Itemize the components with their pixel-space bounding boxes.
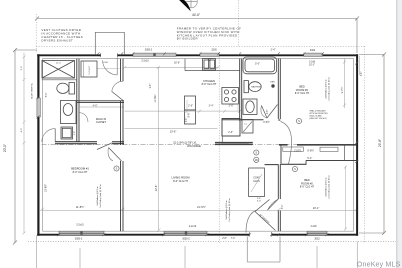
svg-text:3236: 3236 <box>211 48 217 51</box>
toilet 2 <box>244 81 261 93</box>
bed2 door <box>268 199 279 210</box>
bedroom3 door arc <box>281 122 292 165</box>
svg-text:DRYERS EXHAUST: DRYERS EXHAUST <box>41 39 73 43</box>
note text top-right <box>177 27 242 41</box>
svg-text:11'-8½": 11'-8½" <box>76 205 85 209</box>
svg-text:20'-0": 20'-0" <box>3 144 7 152</box>
svg-text:29'-8": 29'-8" <box>378 139 382 147</box>
svg-text:(2) 1-3/4"x11-7/8" LVL: (2) 1-3/4"x11-7/8" LVL <box>173 142 197 145</box>
kitchen counter <box>184 59 186 71</box>
porch <box>247 237 280 263</box>
svg-text:Cat Ceiling Joist @ 16"oc: Cat Ceiling Joist @ 16"oc <box>328 77 331 101</box>
bottom extension lines <box>36 235 38 268</box>
WIC door leaf <box>97 143 112 150</box>
laundry door dim line <box>97 68 120 70</box>
svg-text:12'-6": 12'-6" <box>154 185 158 192</box>
top dimension line 44'-6" <box>35 17 359 54</box>
svg-text:8'-0" CLG HT: 8'-0" CLG HT <box>295 92 310 95</box>
svg-text:CLOSET: CLOSET <box>96 121 106 124</box>
window top 3236 <box>200 48 219 56</box>
svg-text:2'-6": 2'-6" <box>188 105 193 108</box>
svg-text:2-2x10: 2-2x10 <box>141 59 149 62</box>
toilet 1 <box>57 83 75 95</box>
svg-text:8'-8½": 8'-8½" <box>307 149 314 153</box>
svg-text:3050-2: 3050-2 <box>75 238 83 241</box>
door bedroom1 <box>109 148 122 162</box>
laundry door leaf <box>116 58 118 75</box>
laundry rear stoop <box>95 32 124 54</box>
closet sliding doors <box>283 147 304 151</box>
note text top-left <box>41 28 83 43</box>
svg-text:44'-6": 44'-6" <box>192 13 200 17</box>
svg-text:2'-6": 2'-6" <box>257 198 262 200</box>
window bottom 3050-2 b <box>164 225 207 240</box>
svg-text:2x8 Rafters @ 16"oc: 2x8 Rafters @ 16"oc <box>325 79 328 98</box>
svg-text:3052: 3052 <box>314 238 320 241</box>
closet south wall <box>306 160 356 162</box>
svg-text:8'-0" CLG HT: 8'-0" CLG HT <box>173 180 188 183</box>
entry door leaves <box>255 212 276 231</box>
misc small dims <box>150 72 363 240</box>
wall V4 kitchen/bath2 <box>239 59 241 121</box>
window bottom 3050-2 a <box>59 224 104 241</box>
hall south connector wall <box>265 164 279 166</box>
svg-text:3'-6": 3'-6" <box>186 118 188 123</box>
svg-text:Cat Ceiling Joist @ 16"oc: Cat Ceiling Joist @ 16"oc <box>99 184 102 208</box>
kitchen dim line <box>125 110 240 112</box>
svg-text:2x8 Rafters @ 16"oc: 2x8 Rafters @ 16"oc <box>225 200 228 219</box>
dotted line bottom <box>28 240 396 242</box>
wall H2 bedroom1 north <box>55 141 97 143</box>
inner left dimension line <box>23 53 26 235</box>
svg-text:5'-0": 5'-0" <box>46 93 48 98</box>
wall V6 bed2 west <box>278 164 280 231</box>
svg-text:16'-6": 16'-6" <box>174 62 180 65</box>
exterior wall left <box>37 54 39 235</box>
exterior wall top <box>37 54 358 56</box>
svg-text:LIVING ROOM: LIVING ROOM <box>172 176 191 180</box>
construction dashed vertical center <box>218 52 220 243</box>
kitchen island <box>185 96 196 124</box>
svg-text:5'-0": 5'-0" <box>255 63 260 66</box>
svg-text:9'-6": 9'-6" <box>187 112 190 117</box>
vanity 2 <box>243 99 257 114</box>
construction dashed vertical top-left <box>35 14 37 52</box>
svg-text:BY BUILDER: BY BUILDER <box>177 37 198 41</box>
wall H3 south of bath2 <box>222 119 264 121</box>
right dimension line 29'-8" <box>359 53 386 236</box>
svg-text:(SEE DET 2/SCH-2): (SEE DET 2/SCH-2) <box>310 118 327 120</box>
svg-text:3'-0": 3'-0" <box>257 201 262 203</box>
svg-text:12'-0": 12'-0" <box>56 63 61 65</box>
svg-text:5'-0": 5'-0" <box>21 66 23 71</box>
dim 4'-6" <box>79 106 124 108</box>
page scan edge right <box>397 0 402 268</box>
svg-text:BATHRM: BATHRM <box>251 86 260 89</box>
svg-text:SLDR TEMP GL: SLDR TEMP GL <box>32 82 34 99</box>
window top 3050-2 <box>133 48 176 56</box>
svg-text:CLOS: CLOS <box>294 150 301 153</box>
svg-text:10'-1": 10'-1" <box>313 206 320 210</box>
svg-text:2x8 Rafters @ 16"oc: 2x8 Rafters @ 16"oc <box>325 177 328 196</box>
svg-text:3'-6": 3'-6" <box>361 72 363 77</box>
svg-text:10'-8½": 10'-8½" <box>43 184 47 192</box>
smoke detectors <box>114 118 302 171</box>
svg-text:OneKey MLS: OneKey MLS <box>357 261 401 268</box>
wall V1 laundry/bath east <box>76 59 78 142</box>
bath1 to WIC door arc <box>79 113 88 123</box>
wall junction ticks <box>37 52 359 236</box>
svg-text:2'-6": 2'-6" <box>228 131 233 134</box>
svg-text:3'-6½": 3'-6½" <box>263 120 270 124</box>
svg-text:BEDROOM #1: BEDROOM #1 <box>71 167 89 171</box>
bedroom2 dim line <box>345 166 347 230</box>
svg-text:21'-6½": 21'-6½" <box>197 205 206 209</box>
svg-text:Cat Ceiling Joist @ 16"oc: Cat Ceiling Joist @ 16"oc <box>228 198 231 222</box>
svg-text:2X10 RIDGE: 2X10 RIDGE <box>187 145 201 148</box>
wall V2 <box>121 59 124 232</box>
svg-text:Cat Ceiling Joist @ 16"oc: Cat Ceiling Joist @ 16"oc <box>328 175 331 199</box>
interior face of exterior walls <box>43 59 354 232</box>
svg-text:2'-8": 2'-8" <box>267 110 269 115</box>
entry opening in bottom wall <box>250 232 272 236</box>
svg-text:S: S <box>294 167 296 171</box>
svg-text:10'-1": 10'-1" <box>309 64 315 67</box>
interior bottom dimension line <box>40 208 359 211</box>
attic access note <box>310 110 329 121</box>
svg-text:FAN: FAN <box>271 81 275 84</box>
svg-text:2x8 Rafters @ 16"oc: 2x8 Rafters @ 16"oc <box>96 186 99 205</box>
svg-text:5'-6"x2'-0": 5'-6"x2'-0" <box>89 65 91 74</box>
kitchen sink <box>203 59 216 71</box>
svg-text:8'-0" CLG HT: 8'-0" CLG HT <box>202 83 217 86</box>
svg-text:3'-0": 3'-0" <box>282 205 284 210</box>
svg-text:8'-0" CLG HT: 8'-0" CLG HT <box>300 186 315 189</box>
linen closet hall <box>81 61 97 77</box>
window left wall <box>37 98 40 117</box>
svg-text:13'-6": 13'-6" <box>170 129 177 133</box>
washer dryer X box <box>42 61 75 79</box>
wall laundry/bath divider <box>42 79 77 81</box>
svg-text:3050-2: 3050-2 <box>145 48 153 51</box>
svg-text:2'-8": 2'-8" <box>74 131 76 136</box>
svg-text:3462: 3462 <box>310 49 316 52</box>
svg-text:2'-6": 2'-6" <box>229 105 234 108</box>
svg-text:8'-0" CLG HT: 8'-0" CLG HT <box>73 171 88 174</box>
svg-text:7'-4": 7'-4" <box>231 238 236 240</box>
svg-text:4'-0": 4'-0" <box>21 128 23 133</box>
svg-text:11'-8¼": 11'-8¼" <box>154 94 157 102</box>
bath2 door <box>267 105 278 119</box>
svg-text:S: S <box>255 151 257 155</box>
svg-text:5'-4": 5'-4" <box>307 157 312 160</box>
hall south wall with cased opening <box>221 142 249 145</box>
svg-text:3050-2: 3050-2 <box>182 238 190 241</box>
wall V5 bath2/bed3 <box>277 59 279 119</box>
left dimension line 20'-0" <box>13 48 37 245</box>
compass <box>177 0 197 11</box>
construction dashed line top <box>36 46 365 48</box>
window bottom 3052 <box>307 225 327 240</box>
pantry <box>222 119 240 137</box>
living room vertical dim 12'-6" <box>158 67 160 230</box>
svg-text:S: S <box>298 119 300 123</box>
exterior wall bottom <box>37 234 358 236</box>
svg-text:2'-4": 2'-4" <box>271 49 276 52</box>
range <box>222 88 239 105</box>
laundry rear door opening <box>101 53 118 57</box>
shower bedroom1 side <box>61 127 73 139</box>
entry door arc <box>246 211 256 233</box>
construction dashed vertical right <box>364 46 366 243</box>
ridge centerline <box>42 144 357 146</box>
living room horizontal dim 13'-6" <box>125 128 218 130</box>
svg-text:4'-6": 4'-6" <box>93 104 98 107</box>
hall top door arc <box>103 60 118 75</box>
svg-text:2-2x10: 2-2x10 <box>189 225 197 228</box>
coat closet <box>249 168 265 197</box>
kitchen top dim line <box>125 66 219 68</box>
bath1 door arc <box>42 129 55 142</box>
exterior wall right <box>356 54 358 235</box>
wall H1 WIC north <box>77 100 124 102</box>
svg-text:3'-4": 3'-4" <box>209 105 214 108</box>
svg-text:9'-6": 9'-6" <box>150 84 152 89</box>
svg-text:2'-8": 2'-8" <box>222 238 227 240</box>
bed3 south wall / closet north <box>279 144 288 146</box>
rafter notes rotated <box>96 77 331 222</box>
right small dim <box>358 56 360 75</box>
vanity 1 <box>61 101 77 124</box>
window top 3462 <box>304 49 323 56</box>
tub <box>243 57 277 74</box>
svg-text:2-2x10: 2-2x10 <box>76 224 84 227</box>
door leaves V2 upper <box>112 92 123 101</box>
svg-text:S: S <box>116 167 118 171</box>
bedroom3 dim line <box>344 58 346 108</box>
LC closet <box>242 120 253 134</box>
svg-text:2-2x8: 2-2x8 <box>311 225 318 228</box>
